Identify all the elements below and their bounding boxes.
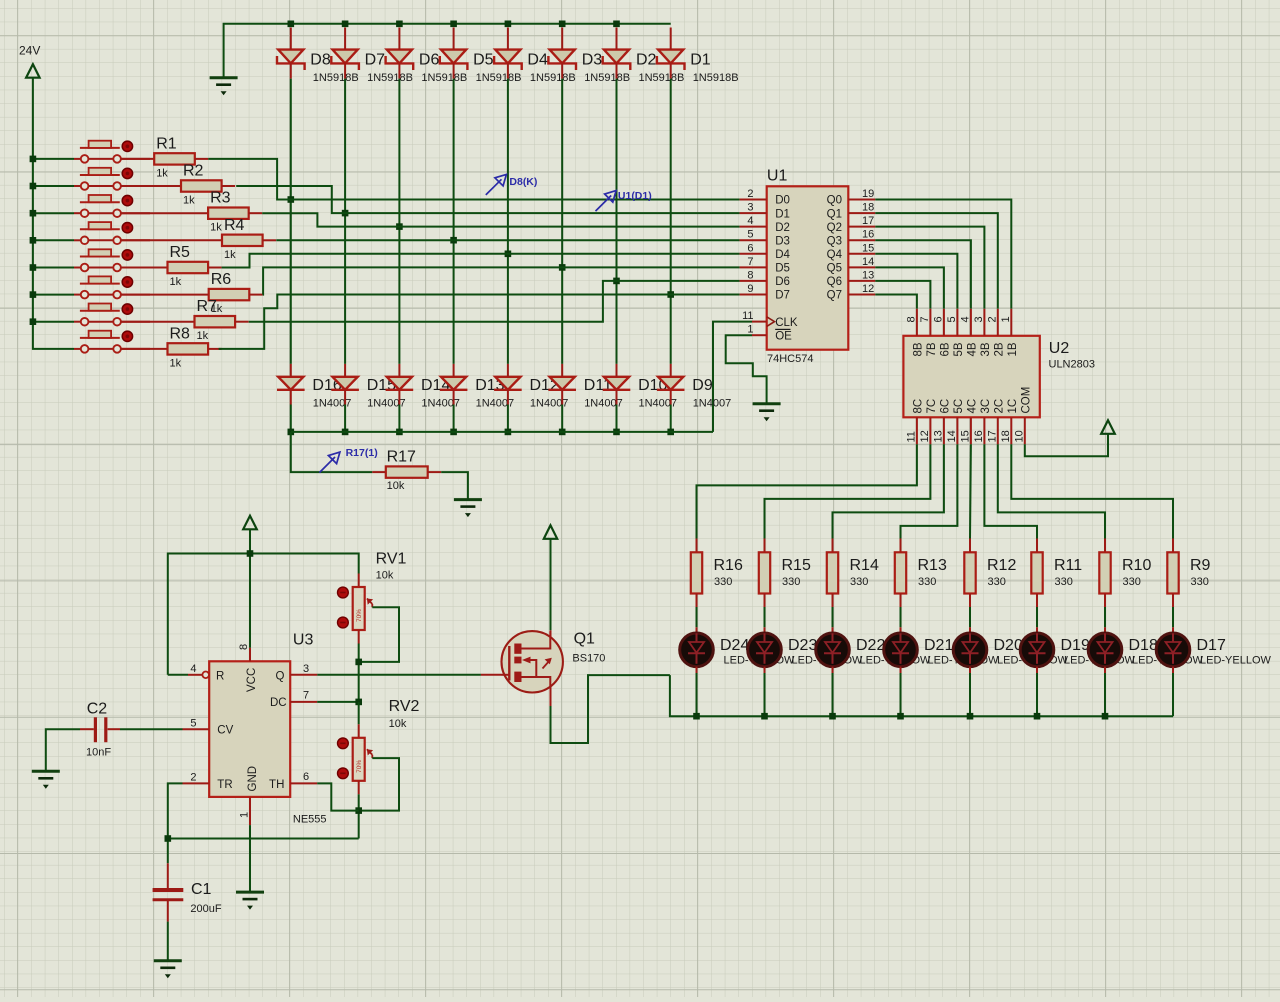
- svg-text:1k: 1k: [156, 167, 168, 179]
- svg-text:330: 330: [988, 576, 1006, 588]
- svg-text:5: 5: [747, 229, 753, 241]
- svg-text:6: 6: [932, 316, 944, 322]
- svg-text:1N5918B: 1N5918B: [367, 72, 413, 84]
- power 24V: [19, 44, 40, 78]
- svg-text:330: 330: [1123, 576, 1141, 588]
- svg-text:D4: D4: [775, 249, 790, 261]
- wire Q1 drain: [550, 539, 552, 638]
- diode D8 1N5918B: [277, 28, 359, 84]
- resistor R7 1k: [121, 298, 249, 342]
- svg-text:3: 3: [747, 202, 753, 214]
- wire R7 to U1 D6: [249, 281, 740, 322]
- diode D7 1N5918B: [331, 28, 413, 84]
- capacitor C2 10nF: [80, 700, 120, 758]
- switch row 5: [74, 249, 150, 271]
- svg-text:DC: DC: [270, 697, 287, 709]
- svg-text:D5: D5: [473, 51, 494, 68]
- wire U2 4C to R12: [969, 444, 972, 538]
- svg-text:16: 16: [862, 229, 874, 241]
- svg-text:D21: D21: [924, 637, 953, 654]
- svg-text:D9: D9: [692, 377, 713, 394]
- svg-text:1N5918B: 1N5918B: [421, 72, 467, 84]
- wire U2 2C to R10: [998, 444, 1105, 538]
- svg-text:12: 12: [919, 430, 931, 442]
- svg-text:3C: 3C: [980, 399, 992, 414]
- LED D21 LED-YELLOW: [884, 607, 918, 716]
- svg-text:10k: 10k: [389, 718, 407, 730]
- svg-text:19: 19: [862, 188, 874, 200]
- svg-text:15: 15: [959, 430, 971, 442]
- svg-text:1: 1: [747, 324, 753, 336]
- wire D16 cathode to bus: [288, 405, 295, 436]
- svg-text:4B: 4B: [966, 342, 978, 356]
- svg-text:R9: R9: [1190, 557, 1211, 574]
- svg-text:5B: 5B: [953, 342, 965, 356]
- wire diode OR bus: [291, 431, 713, 433]
- label LED D17: [1197, 637, 1272, 666]
- wire U2 6C to R14: [833, 444, 944, 538]
- svg-text:1k: 1k: [224, 249, 236, 261]
- svg-text:1N5918B: 1N5918B: [639, 72, 685, 84]
- svg-text:24V: 24V: [19, 44, 40, 58]
- wire U3 DC to RV1/RV2: [317, 699, 362, 725]
- label LED D18: [1129, 637, 1204, 666]
- svg-text:4C: 4C: [966, 399, 978, 414]
- wire LED cathode bus: [670, 675, 1173, 719]
- LED D19 LED-YELLOW: [1020, 607, 1054, 716]
- ground C1: [154, 961, 182, 979]
- svg-text:D2: D2: [636, 51, 657, 68]
- svg-text:R8: R8: [170, 325, 191, 342]
- net label R17(1): [319, 447, 377, 473]
- diode D10 1N4007: [603, 364, 677, 410]
- wire U1 Q0 to U2 pin 8: [875, 200, 1011, 309]
- svg-text:R17(1): R17(1): [346, 447, 378, 459]
- svg-text:TH: TH: [269, 779, 284, 791]
- wire R6 to U1 D5: [263, 267, 740, 294]
- svg-text:ULN2803: ULN2803: [1049, 359, 1095, 371]
- wire R5 to U1 D4: [222, 254, 740, 268]
- svg-text:R2: R2: [183, 163, 204, 180]
- svg-text:70%: 70%: [356, 760, 363, 773]
- svg-text:12: 12: [862, 283, 874, 295]
- svg-text:330: 330: [1191, 576, 1209, 588]
- svg-text:11: 11: [742, 310, 753, 322]
- svg-text:16: 16: [973, 430, 985, 442]
- resistor R10 330: [1099, 539, 1151, 608]
- svg-text:R4: R4: [224, 217, 245, 234]
- svg-text:74HC574: 74HC574: [767, 353, 813, 365]
- svg-text:70%: 70%: [356, 609, 363, 622]
- wire U3 CV to C2: [120, 728, 183, 730]
- wire U1 Q3 to U2 pin 5: [875, 240, 971, 309]
- svg-text:CLK: CLK: [775, 317, 798, 329]
- wire D11 cathode to bus: [559, 405, 566, 436]
- wire R1 to U1 D0: [208, 159, 739, 200]
- svg-text:Q: Q: [275, 670, 284, 682]
- svg-text:10: 10: [1013, 430, 1025, 442]
- label LED D23: [788, 637, 863, 666]
- svg-text:14: 14: [862, 256, 874, 268]
- wire U2 5C to R13: [901, 444, 958, 538]
- LED D22 LED-YELLOW: [816, 607, 850, 716]
- net label D8(K): [486, 174, 538, 195]
- svg-text:D20: D20: [994, 637, 1023, 654]
- svg-text:1k: 1k: [197, 330, 209, 342]
- svg-text:Q4: Q4: [827, 249, 843, 261]
- diode D12 1N4007: [494, 364, 568, 410]
- wire RV1 wiper loop: [355, 607, 399, 702]
- wire R17 to ground: [441, 472, 468, 500]
- svg-text:D8: D8: [310, 51, 331, 68]
- svg-text:D18: D18: [1129, 637, 1158, 654]
- svg-text:1N5918B: 1N5918B: [313, 72, 359, 84]
- svg-text:D2: D2: [775, 222, 790, 234]
- ic U3 NE555: [183, 632, 327, 826]
- svg-text:RV2: RV2: [389, 698, 420, 715]
- svg-text:D3: D3: [775, 235, 790, 247]
- svg-text:R3: R3: [210, 190, 231, 207]
- svg-text:4: 4: [747, 215, 753, 227]
- svg-text:6: 6: [747, 242, 753, 254]
- svg-text:NE555: NE555: [293, 814, 327, 826]
- svg-text:Q7: Q7: [827, 290, 842, 302]
- wire R2 to U1 D1: [236, 186, 739, 213]
- svg-text:D4: D4: [527, 51, 548, 68]
- wire CLK net (pin 11) to diode bus: [713, 322, 752, 432]
- svg-text:Q6: Q6: [827, 276, 842, 288]
- svg-text:8: 8: [905, 316, 917, 322]
- svg-text:D19: D19: [1061, 637, 1090, 654]
- resistor R13 330: [895, 539, 947, 608]
- wire R4 to U1 D3: [276, 239, 739, 241]
- svg-text:D7: D7: [365, 51, 386, 68]
- diode D14 1N4007: [386, 364, 460, 410]
- wire U1 Q4 to U2 pin 4: [875, 254, 957, 309]
- wire U3 GND pin: [249, 825, 251, 892]
- svg-text:D1: D1: [775, 208, 790, 220]
- ic U2 ULN2803: [903, 309, 1095, 445]
- wire column D5 anode to D13: [450, 79, 457, 364]
- wire D15 cathode to bus: [342, 405, 349, 436]
- svg-text:Q1: Q1: [827, 208, 842, 220]
- svg-text:R17: R17: [387, 449, 416, 466]
- svg-text:8: 8: [747, 269, 753, 281]
- wire U1 Q1 to U2 pin 7: [875, 213, 998, 309]
- diode D5 1N5918B: [440, 28, 522, 84]
- svg-text:U3: U3: [293, 632, 314, 649]
- svg-text:7C: 7C: [926, 399, 938, 414]
- svg-text:5: 5: [946, 316, 958, 322]
- label LED D22: [856, 637, 931, 666]
- svg-text:1k: 1k: [170, 357, 182, 369]
- svg-text:4: 4: [959, 316, 971, 322]
- svg-text:U2: U2: [1049, 340, 1070, 357]
- svg-text:OE: OE: [775, 330, 792, 342]
- svg-text:D6: D6: [775, 276, 790, 288]
- net label U1(D1): [596, 190, 652, 211]
- wire column D3 anode to D11: [559, 79, 566, 364]
- resistor R17 10k: [372, 449, 441, 492]
- svg-text:8: 8: [238, 644, 250, 650]
- svg-text:D0: D0: [775, 195, 790, 207]
- switch row 8: [74, 331, 150, 353]
- ground U3: [236, 892, 264, 910]
- wire C2 to ground: [46, 729, 80, 771]
- wire D12 cathode to bus: [505, 405, 512, 436]
- svg-text:R6: R6: [211, 271, 232, 288]
- wire U1 Q7 to U2 pin 1: [875, 295, 917, 309]
- svg-text:10k: 10k: [376, 569, 394, 581]
- svg-text:U1(D1): U1(D1): [618, 190, 652, 202]
- svg-text:10k: 10k: [387, 480, 405, 492]
- svg-text:15: 15: [862, 242, 874, 254]
- wire U2 3C to R11: [984, 444, 1037, 538]
- svg-text:D3: D3: [582, 51, 603, 68]
- wire U1 Q5 to U2 pin 3: [875, 267, 944, 308]
- wire U3 VCC rail: [168, 529, 359, 675]
- svg-text:330: 330: [714, 576, 732, 588]
- resistor R11 330: [1031, 539, 1082, 608]
- label LED D20: [994, 637, 1069, 666]
- svg-text:Q2: Q2: [827, 222, 842, 234]
- wire U2 1C to R9: [1011, 444, 1173, 538]
- svg-text:1N5918B: 1N5918B: [584, 72, 630, 84]
- wire column D4 anode to D12: [505, 79, 512, 364]
- svg-text:CV: CV: [217, 725, 233, 737]
- switch row 2: [74, 168, 150, 190]
- LED D23 LED-YELLOW: [748, 607, 782, 716]
- svg-text:Q1: Q1: [574, 631, 595, 648]
- wire column D6 anode to D14: [396, 79, 403, 364]
- svg-text:14: 14: [946, 430, 958, 442]
- resistor R4 1k: [121, 217, 276, 261]
- svg-text:D22: D22: [856, 637, 885, 654]
- svg-text:200uF: 200uF: [190, 903, 221, 915]
- svg-text:330: 330: [1055, 576, 1073, 588]
- ground top rail: [210, 78, 238, 96]
- wire U3 TR to C1: [165, 783, 183, 863]
- wire R8 to U1 D7: [219, 295, 740, 349]
- svg-text:7: 7: [919, 316, 931, 322]
- diode D9 1N4007: [657, 364, 731, 410]
- svg-text:Q3: Q3: [827, 235, 842, 247]
- switch row 6: [74, 276, 150, 298]
- wire U2 COM to VCC: [1025, 434, 1108, 457]
- svg-text:330: 330: [782, 576, 800, 588]
- svg-text:GND: GND: [247, 766, 259, 792]
- wire D14 cathode to bus: [396, 405, 403, 436]
- wire U3 Q to Q1 gate: [317, 674, 501, 676]
- wire OE (pin 1) to ground: [726, 335, 767, 404]
- svg-text:R14: R14: [850, 557, 879, 574]
- svg-text:D1: D1: [690, 51, 711, 68]
- svg-text:6: 6: [303, 771, 309, 783]
- svg-text:8B: 8B: [912, 342, 924, 356]
- wire top cathode rail: [224, 21, 671, 78]
- svg-text:1k: 1k: [210, 222, 222, 234]
- wire R3 to U1 D2: [262, 213, 739, 226]
- svg-text:5C: 5C: [953, 399, 965, 414]
- svg-text:7: 7: [747, 256, 753, 268]
- svg-text:1: 1: [1000, 316, 1012, 322]
- diode D6 1N5918B: [386, 28, 468, 84]
- label LED D24: [720, 637, 795, 666]
- diode D13 1N4007: [440, 364, 514, 410]
- resistor R3 1k: [121, 190, 262, 234]
- ground R17: [454, 500, 482, 517]
- switch row 7: [74, 304, 150, 326]
- switch row 1: [74, 141, 150, 163]
- wire column D2 anode to D10: [613, 79, 620, 364]
- svg-text:2B: 2B: [993, 342, 1005, 356]
- wire U1 Q2 to U2 pin 6: [875, 227, 984, 309]
- wire U2 8C to R16: [697, 444, 917, 538]
- wire column D7 anode to D15: [342, 79, 349, 364]
- diode D2 1N5918B: [603, 28, 685, 84]
- svg-text:D8(K): D8(K): [509, 176, 537, 188]
- resistor R6 1k: [121, 271, 263, 315]
- potentiometer RV2 10k: [338, 698, 420, 794]
- svg-text:13: 13: [862, 269, 874, 281]
- diode D11 1N4007: [548, 364, 622, 410]
- svg-text:1k: 1k: [183, 195, 195, 207]
- svg-text:3B: 3B: [980, 342, 992, 356]
- svg-text:Q5: Q5: [827, 263, 842, 275]
- svg-text:R: R: [216, 670, 224, 682]
- svg-text:10nF: 10nF: [86, 747, 111, 759]
- power VCC arrow at U2 COM: [1101, 420, 1115, 434]
- svg-text:6B: 6B: [939, 342, 951, 356]
- svg-text:330: 330: [850, 576, 868, 588]
- svg-text:17: 17: [986, 430, 998, 442]
- wire column D1 anode to D9: [667, 79, 674, 364]
- wire D13 cathode to bus: [450, 405, 457, 436]
- wire Q1 source to LED bus: [551, 675, 670, 743]
- svg-text:4: 4: [190, 663, 196, 675]
- diode D15 1N4007: [331, 364, 405, 410]
- svg-text:D6: D6: [419, 51, 440, 68]
- svg-text:R15: R15: [782, 557, 811, 574]
- switch row 4: [74, 222, 150, 244]
- svg-text:2: 2: [986, 316, 998, 322]
- svg-text:1B: 1B: [1007, 342, 1019, 356]
- svg-text:RV1: RV1: [376, 551, 407, 568]
- wire D10 cathode to bus: [613, 405, 620, 436]
- svg-text:3: 3: [973, 316, 985, 322]
- svg-text:6C: 6C: [939, 399, 951, 414]
- svg-text:R12: R12: [987, 557, 1016, 574]
- wire RV2 wiper loop and TH: [168, 758, 399, 838]
- svg-text:17: 17: [862, 215, 874, 227]
- svg-text:D5: D5: [775, 263, 790, 275]
- wire U2 7C to R15: [765, 444, 931, 538]
- wire D9 cathode to bus: [667, 405, 674, 436]
- svg-text:1: 1: [239, 812, 251, 818]
- resistor R9 330: [1167, 539, 1210, 608]
- resistor R2 1k: [121, 163, 235, 207]
- svg-text:R16: R16: [714, 557, 743, 574]
- svg-text:R5: R5: [170, 244, 191, 261]
- diode D3 1N5918B: [548, 28, 630, 84]
- diode D4 1N5918B: [494, 28, 576, 84]
- wire U1 Q6 to U2 pin 2: [875, 281, 930, 309]
- svg-text:1C: 1C: [1007, 399, 1019, 414]
- label LED D21: [924, 637, 999, 666]
- svg-text:1k: 1k: [170, 276, 182, 288]
- svg-text:LED-YELLOW: LED-YELLOW: [1200, 654, 1272, 666]
- svg-text:1N5918B: 1N5918B: [693, 72, 739, 84]
- transistor Q1 BS170: [502, 631, 606, 693]
- wire 24V bus: [30, 78, 74, 349]
- svg-text:5: 5: [190, 717, 196, 729]
- svg-text:11: 11: [905, 431, 917, 442]
- LED D20 LED-YELLOW: [953, 607, 987, 716]
- power VCC arrow at Q1 drain: [544, 525, 557, 539]
- svg-text:2: 2: [190, 772, 196, 784]
- svg-text:D24: D24: [720, 637, 749, 654]
- svg-text:1N4007: 1N4007: [693, 398, 732, 410]
- potentiometer RV1 10k: [338, 551, 407, 644]
- svg-text:Q0: Q0: [827, 195, 842, 207]
- svg-text:18: 18: [1000, 430, 1012, 442]
- LED D18 LED-YELLOW: [1088, 607, 1122, 716]
- ground C2: [32, 771, 60, 789]
- resistor R16 330: [691, 539, 743, 608]
- ground OE: [753, 404, 781, 422]
- svg-text:VCC: VCC: [246, 668, 258, 692]
- svg-text:D23: D23: [788, 637, 817, 654]
- LED D24 LED-YELLOW: [680, 607, 714, 716]
- resistor R15 330: [759, 539, 811, 608]
- svg-text:2C: 2C: [993, 399, 1005, 414]
- svg-text:D7: D7: [775, 290, 790, 302]
- diode D16 1N4007: [277, 364, 351, 410]
- svg-text:7B: 7B: [926, 342, 938, 356]
- svg-text:9: 9: [747, 283, 753, 295]
- svg-text:18: 18: [862, 202, 874, 214]
- svg-text:7: 7: [303, 690, 309, 702]
- svg-text:C1: C1: [191, 881, 212, 898]
- svg-text:1N5918B: 1N5918B: [476, 72, 522, 84]
- resistor R12 330: [964, 539, 1016, 608]
- label LED D19: [1061, 637, 1136, 666]
- svg-text:R7: R7: [197, 298, 218, 315]
- resistor R5 1k: [121, 244, 222, 288]
- svg-text:2: 2: [747, 188, 753, 200]
- svg-text:C2: C2: [87, 700, 108, 717]
- svg-text:3: 3: [303, 663, 309, 675]
- svg-text:D17: D17: [1197, 637, 1226, 654]
- svg-text:R11: R11: [1054, 557, 1082, 574]
- svg-text:COM: COM: [1020, 387, 1032, 414]
- svg-text:TR: TR: [217, 779, 232, 791]
- wire bus to R17: [291, 432, 373, 472]
- diode D1 1N5918B: [657, 28, 739, 84]
- svg-text:13: 13: [932, 430, 944, 442]
- svg-text:U1: U1: [767, 168, 788, 185]
- resistor R14 330: [827, 539, 879, 608]
- power VCC arrow at U3: [243, 516, 257, 530]
- svg-text:330: 330: [918, 576, 936, 588]
- svg-text:R1: R1: [156, 135, 177, 152]
- op-amp U1 74HC574: [740, 168, 876, 365]
- svg-text:R10: R10: [1122, 557, 1151, 574]
- svg-text:1N5918B: 1N5918B: [530, 72, 576, 84]
- LED D17 LED-YELLOW: [1156, 607, 1190, 716]
- capacitor C1 200uF: [153, 863, 222, 921]
- switch row 3: [74, 195, 150, 217]
